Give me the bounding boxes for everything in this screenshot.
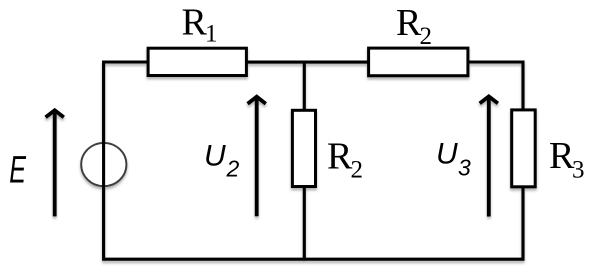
svg-text:2: 2 xyxy=(351,157,364,184)
svg-text:3: 3 xyxy=(458,155,471,181)
label R2 top xyxy=(396,2,432,50)
svg-text:R: R xyxy=(182,1,208,43)
resistor R2 middle xyxy=(292,110,315,186)
svg-text:2: 2 xyxy=(420,23,433,50)
arrow E xyxy=(46,110,64,216)
resistor R1 xyxy=(148,48,246,75)
label R3 xyxy=(549,135,585,184)
resistor R2 top xyxy=(369,48,468,76)
label U3 xyxy=(436,138,471,181)
wire outer loop: left, bottom, right xyxy=(104,62,523,259)
svg-text:R: R xyxy=(327,135,353,177)
svg-text:E: E xyxy=(9,148,26,190)
resistor R3 xyxy=(512,110,536,187)
wire middle branch vertical xyxy=(303,61,306,260)
label U2 xyxy=(204,140,240,182)
wire between R1 and R2 xyxy=(246,61,370,64)
label R2 middle xyxy=(327,135,363,183)
svg-text:1: 1 xyxy=(205,21,218,48)
voltage source E (circle) xyxy=(81,143,126,186)
svg-text:2: 2 xyxy=(226,156,240,182)
svg-text:R: R xyxy=(396,2,422,44)
arrow U3 xyxy=(480,96,498,216)
svg-text:U: U xyxy=(204,140,226,173)
svg-text:U: U xyxy=(436,138,458,171)
label R1 xyxy=(182,1,218,47)
arrow U2 xyxy=(248,97,266,217)
svg-text:3: 3 xyxy=(572,156,585,183)
